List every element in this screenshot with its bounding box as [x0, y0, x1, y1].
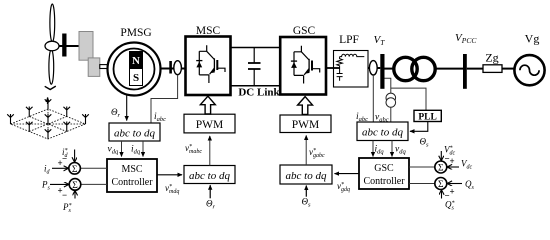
svg-text:v*gdq: v*gdq — [337, 181, 350, 193]
Qs* input arrow — [441, 190, 443, 198]
wire VPCC to Zg — [467, 68, 483, 70]
wind farm turbine 1 — [7, 114, 14, 124]
svg-text:Qs: Qs — [465, 179, 475, 191]
turbine hub — [45, 41, 59, 51]
wind farm turbine 7 — [45, 129, 52, 139]
PWM box right — [280, 115, 331, 133]
PMSG outer circle — [108, 43, 161, 96]
wind farm turbine 8 — [63, 122, 70, 132]
wire GSC to LPF — [326, 67, 340, 69]
AC source Vg — [514, 55, 544, 85]
current sensor CT2 — [369, 61, 377, 75]
svg-text:Θs: Θs — [302, 197, 312, 209]
wire junction 1 to MSC controller — [80, 167, 107, 169]
Vdc* input arrow — [440, 151, 442, 160]
LPF shunt resistor — [337, 57, 343, 68]
VPCC bus bar — [463, 54, 467, 89]
svg-text:v*mabc: v*mabc — [185, 143, 202, 155]
DC link capacitor — [248, 48, 261, 86]
transformer secondary — [412, 57, 435, 80]
IGBT U1 — [196, 45, 225, 83]
break chevron — [45, 86, 56, 89]
svg-text:Vg: Vg — [525, 32, 540, 46]
Ps input arrow — [50, 183, 68, 185]
wire vmdq* to abc-dq — [157, 174, 182, 176]
summing junction 1 — [69, 163, 81, 175]
svg-text:−: − — [62, 190, 67, 200]
gearbox stage 2 — [88, 58, 100, 77]
wire junction A to GSC controller — [409, 166, 435, 168]
svg-text:Θr: Θr — [206, 199, 216, 211]
svg-text:DC Link: DC Link — [238, 87, 280, 99]
LPF inductor — [340, 54, 365, 56]
svg-text:vdq: vdq — [108, 145, 119, 156]
gearbox stage 1 — [79, 32, 93, 61]
theta-s arrow bottom right — [305, 186, 307, 197]
svg-text:LPF: LPF — [339, 34, 359, 46]
grid impedance Zg — [483, 65, 502, 73]
wire VT to transformer — [385, 68, 395, 70]
theta-r arrow bottom left — [209, 185, 211, 198]
svg-text:−: − — [62, 154, 67, 164]
abc to dq converter (machine) — [109, 123, 160, 141]
svg-text:v*gabc: v*gabc — [309, 147, 325, 159]
wind farm turbine 9 — [82, 114, 89, 124]
svg-text:VT: VT — [374, 34, 386, 47]
svg-text:Σ: Σ — [438, 180, 444, 190]
Qs input arrow — [448, 183, 462, 185]
svg-text:Zg: Zg — [485, 51, 498, 65]
DC link top rail — [231, 47, 281, 49]
wire iabc sensor down — [372, 75, 374, 122]
svg-text:Q*s: Q*s — [445, 200, 455, 212]
big arrow PWM to GSC — [298, 97, 313, 115]
Ps* input arrow — [74, 191, 76, 199]
svg-text:+: + — [450, 187, 455, 197]
svg-text:VPCC: VPCC — [455, 32, 477, 45]
svg-text:Σ: Σ — [72, 181, 78, 191]
summing junction A — [435, 161, 447, 173]
DC link bottom rail — [231, 85, 281, 87]
wire PLL to abc-dq — [410, 122, 428, 132]
IGBT U2 — [291, 46, 320, 84]
svg-text:MSC: MSC — [121, 164, 142, 175]
shaft gearbox to PMSG — [100, 65, 108, 69]
wind farm turbine 3 — [45, 99, 52, 109]
abc to dq converter (MSC mod) — [184, 166, 235, 184]
svg-text:v*mdq: v*mdq — [165, 183, 179, 195]
GSC converter box — [280, 37, 326, 95]
svg-text:Σ: Σ — [438, 164, 444, 174]
wire junction B to GSC controller — [409, 183, 435, 185]
brake disc — [62, 34, 66, 57]
summing junction B — [435, 178, 447, 190]
turbine blade upper — [50, 4, 55, 42]
svg-text:idq: idq — [131, 145, 141, 156]
voltage sensor PT — [386, 93, 396, 103]
svg-text:+: + — [450, 156, 455, 166]
id input arrow — [52, 167, 68, 169]
MSC converter box — [186, 37, 231, 96]
wire vgdq* to abc-dq — [335, 173, 360, 175]
svg-text:N: N — [132, 55, 140, 67]
svg-text:Controller: Controller — [363, 176, 405, 187]
wire PLL feed — [391, 88, 426, 110]
svg-text:abc to dq: abc to dq — [286, 170, 327, 182]
wire Zg to Vg — [502, 68, 515, 70]
abc to dq converter (grid) — [357, 122, 408, 141]
svg-text:abc to dq: abc to dq — [114, 128, 155, 140]
abc to dq converter (GSC mod) — [280, 165, 332, 184]
svg-text:PLL: PLL — [418, 112, 436, 122]
svg-text:Θr: Θr — [111, 107, 121, 119]
LPF box — [334, 51, 369, 88]
wire junction 2 to MSC controller — [81, 183, 107, 185]
svg-text:abc to dq: abc to dq — [362, 127, 403, 139]
svg-text:Ps: Ps — [41, 180, 51, 192]
wind farm grid — [11, 109, 86, 139]
PWM box left — [184, 114, 235, 133]
wind farm turbine 5 — [45, 114, 52, 124]
wind farm arrow — [47, 98, 49, 105]
VT bus bar — [380, 54, 384, 89]
wire vgabc up — [305, 136, 307, 166]
svg-text:abc to dq: abc to dq — [189, 170, 230, 182]
svg-text:PWM: PWM — [196, 119, 223, 131]
LPF shunt capacitor — [337, 68, 343, 81]
PLL box — [414, 110, 441, 121]
svg-text:PWM: PWM — [292, 119, 319, 131]
svg-text:MSC: MSC — [196, 25, 221, 37]
wire idq down — [372, 141, 374, 157]
PMSG magnet N pole — [130, 52, 143, 69]
transformer primary — [394, 57, 417, 80]
Vdc input arrow — [448, 166, 459, 168]
current sensor CT1 — [174, 61, 182, 75]
svg-text:Θs: Θs — [420, 137, 430, 149]
wire theta-r PMSG down — [126, 95, 128, 121]
svg-text:S: S — [133, 72, 139, 84]
wire vdq down — [391, 141, 393, 157]
svg-text:iabc: iabc — [154, 112, 166, 123]
wire vabc down to abc-dq — [390, 107, 392, 122]
wire idq down left — [142, 141, 144, 157]
wire PMSG to MSC — [161, 68, 186, 70]
svg-text:GSC: GSC — [293, 25, 316, 37]
svg-text:+: + — [58, 158, 63, 168]
PMSG magnet S pole — [130, 69, 143, 86]
PMSG inner circle — [114, 49, 155, 90]
wire iabc left sensor down — [151, 75, 178, 123]
wind farm turbine 6 — [63, 107, 70, 117]
wire VT tap down — [385, 78, 391, 93]
svg-text:PMSG: PMSG — [120, 27, 151, 39]
big arrow PWM to MSC — [200, 96, 215, 114]
svg-text:Controller: Controller — [111, 177, 153, 188]
svg-text:Vdc: Vdc — [461, 159, 473, 171]
MSC controller box — [107, 159, 157, 192]
wire vmabc up — [209, 136, 211, 166]
svg-text:idq: idq — [375, 145, 385, 156]
wind farm turbine 4 — [26, 122, 33, 132]
GSC controller box — [359, 158, 409, 189]
svg-text:id: id — [44, 164, 51, 176]
wire: shaft hub to gearbox — [58, 45, 80, 47]
svg-text:iabc: iabc — [356, 112, 368, 123]
svg-text:vdq: vdq — [395, 145, 406, 156]
wire transformer to VPCC — [435, 68, 463, 70]
turbine blade lower — [49, 49, 54, 84]
id* input arrow — [74, 150, 76, 162]
svg-text:P*s: P*s — [62, 202, 72, 214]
wire vdq down left — [121, 141, 123, 157]
svg-text:GSC: GSC — [374, 163, 394, 174]
summing junction 2 — [69, 179, 81, 191]
wire LPF to VT bus — [368, 67, 380, 69]
stator terminal bar — [169, 61, 172, 74]
svg-text:Σ: Σ — [72, 165, 78, 175]
wind farm turbine 2 — [26, 107, 33, 117]
